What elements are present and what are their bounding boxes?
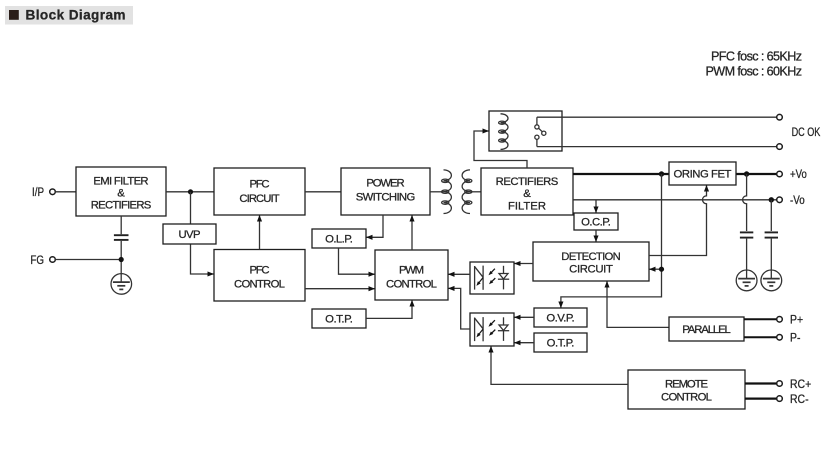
block ORING FET	[669, 162, 736, 185]
capacitor Y-cap plates	[114, 235, 129, 240]
junction dot on +Vo rail	[659, 171, 664, 176]
wire OCP down to detection circuit	[595, 230, 597, 242]
wire OTP to PWM bottom	[366, 300, 412, 318]
block PWM CONTROL	[375, 250, 448, 300]
wire power switching to transformer primary	[430, 191, 444, 193]
wire transformer secondary to rectifiers	[470, 191, 481, 193]
wire node A down to UVP	[190, 192, 192, 224]
svg-text:CONTROL: CONTROL	[661, 392, 712, 404]
svg-text:O.L.P.: O.L.P.	[325, 234, 353, 246]
svg-text:CIRCUIT: CIRCUIT	[239, 193, 279, 205]
relay K1 box	[489, 111, 562, 151]
svg-text:RC-: RC-	[790, 393, 809, 406]
svg-text:EMI FILTER: EMI FILTER	[93, 175, 148, 187]
svg-text:-Vo: -Vo	[790, 194, 805, 207]
svg-text:&: &	[523, 188, 531, 200]
section header bar	[5, 6, 133, 25]
svg-text:REMOTE: REMOTE	[665, 379, 708, 391]
svg-text:PFC: PFC	[249, 264, 269, 276]
wire PFC control up to PFC circuit	[259, 215, 261, 249]
wire PFC control to PWM control	[305, 288, 375, 290]
wire EMI to PFC circuit	[166, 191, 214, 193]
terminal -Vo	[777, 197, 783, 203]
svg-text:I/P: I/P	[32, 186, 44, 199]
junction dot node B	[119, 257, 124, 262]
svg-text:P+: P+	[790, 314, 803, 327]
relay K1 coil	[499, 114, 508, 150]
wire photocoupler U1 to PWM control	[448, 273, 470, 275]
svg-text:PWM fosc : 60KHz: PWM fosc : 60KHz	[706, 64, 803, 78]
junction dot +Vo cap branch	[744, 171, 749, 176]
wire I/P to EMI filter	[55, 191, 76, 193]
wire +Vo rail down to OVP via detection	[561, 174, 662, 308]
block PFC CIRCUIT	[214, 168, 305, 215]
capacitor output C2	[765, 232, 778, 237]
wire detection to ORING FET bottom	[649, 185, 707, 255]
wire rectifiers to +Vo rail	[573, 173, 777, 175]
block O.T.P. secondary	[534, 333, 587, 352]
ground output earth 2	[761, 270, 782, 291]
svg-text:O.T.P.: O.T.P.	[325, 314, 353, 326]
wire OTP2 to photocoupler U2	[514, 342, 534, 344]
block PARALLEL	[669, 317, 744, 341]
terminal P+	[777, 317, 783, 323]
terminal DC OK upper	[777, 114, 783, 120]
block RECTIFIERS & FILTER	[481, 168, 573, 215]
wire OVP to photocoupler U2	[514, 316, 534, 318]
wire PARALLEL to P-	[744, 336, 777, 338]
block REMOTE CONTROL	[628, 370, 745, 409]
wire +Vo cap branch down	[743, 174, 747, 231]
photocoupler U1	[470, 262, 514, 294]
svg-text:RC+: RC+	[790, 378, 812, 391]
wire REMOTE to RC-	[745, 398, 777, 400]
svg-text:PWM: PWM	[399, 265, 424, 277]
wire PFC circuit to POWER SWITCHING	[305, 191, 341, 193]
wire REMOTE to photocoupler U2 bottom	[491, 346, 628, 384]
svg-text:O.V.P.: O.V.P.	[546, 313, 574, 325]
svg-text:CIRCUIT: CIRCUIT	[569, 263, 613, 275]
svg-text:PARALLEL: PARALLEL	[682, 324, 731, 336]
wire OLP to PWM control	[339, 248, 375, 274]
block DETECTION CIRCUIT	[533, 242, 649, 281]
wire relay to DC OK +	[537, 116, 777, 118]
wire -Vo cap branch down	[770, 200, 772, 231]
wire rectifiers top to relay coil	[474, 131, 527, 168]
svg-text:CONTROL: CONTROL	[234, 279, 285, 291]
block PFC CONTROL	[214, 250, 305, 302]
wire C2 to ground	[770, 239, 772, 270]
wire FG to node B	[55, 259, 121, 261]
wire power switching down to OLP	[366, 215, 383, 237]
terminal DC OK lower	[777, 144, 783, 150]
wire PARALLEL to P+	[744, 318, 777, 320]
block EMI FILTER & RECTIFIERS	[76, 167, 166, 216]
capacitor output C1	[740, 232, 753, 237]
wire Y-cap to FG node and ground	[120, 241, 122, 274]
wire relay to DC OK -	[537, 146, 777, 148]
svg-text:POWER: POWER	[366, 178, 404, 190]
block O.V.P.	[534, 308, 587, 327]
block O.C.P.	[574, 213, 618, 230]
svg-text:P-: P-	[790, 332, 801, 345]
block POWER SWITCHING	[341, 168, 430, 215]
terminal +Vo	[777, 171, 783, 177]
terminal RC-	[777, 396, 783, 402]
wire -Vo rail down to OCP	[595, 200, 597, 213]
svg-text:O.C.P.: O.C.P.	[581, 217, 611, 229]
junction dot -Vo cap branch	[769, 197, 774, 202]
wire detection left to photocoupler U1	[514, 263, 533, 265]
wire photocoupler U2 to PWM control	[448, 288, 470, 329]
svg-text:RECTIFIERS: RECTIFIERS	[91, 200, 152, 212]
photocoupler U2	[470, 313, 514, 346]
svg-text:&: &	[117, 188, 125, 200]
block UVP	[163, 224, 216, 244]
wire PWM control up to power switching	[411, 215, 413, 250]
block O.L.P.	[312, 229, 366, 248]
svg-text:PFC: PFC	[249, 179, 269, 191]
svg-text:DC OK: DC OK	[792, 126, 821, 140]
wire detection bottom to PARALLEL	[607, 281, 669, 327]
svg-text:DETECTION: DETECTION	[561, 251, 621, 263]
wire rectifiers to -Vo rail	[573, 199, 777, 201]
svg-text:FILTER: FILTER	[508, 200, 546, 212]
svg-text:ORING FET: ORING FET	[674, 169, 732, 181]
ground output earth 1	[736, 270, 757, 291]
svg-text:SWITCHING: SWITCHING	[356, 191, 416, 203]
svg-text:PFC fosc : 65KHz: PFC fosc : 65KHz	[711, 49, 802, 63]
ground FG earth symbol	[111, 274, 132, 295]
svg-text:+Vo: +Vo	[790, 168, 807, 181]
terminal P-	[777, 335, 783, 341]
svg-text:O.T.P.: O.T.P.	[547, 338, 575, 350]
terminal FG	[30, 254, 55, 267]
terminal I/P	[32, 186, 55, 199]
transformer T1 primary winding	[442, 170, 452, 214]
relay K1 contacts	[535, 117, 546, 146]
svg-text:Block Diagram: Block Diagram	[26, 7, 126, 22]
terminal RC+	[777, 381, 783, 387]
wire REMOTE to RC+	[745, 382, 777, 384]
wire C1 to ground	[746, 239, 748, 270]
wire EMI bottom to Y-cap	[120, 216, 122, 234]
svg-text:CONTROL: CONTROL	[386, 279, 437, 291]
transformer T1 secondary winding	[462, 170, 472, 214]
junction dot node A	[188, 189, 193, 194]
block O.T.P. lower left	[312, 309, 366, 328]
wire branch into detection right	[649, 268, 661, 270]
svg-text:RECTIFIERS: RECTIFIERS	[496, 176, 559, 188]
svg-text:FG: FG	[30, 254, 44, 267]
junction dot detection branch	[659, 267, 664, 272]
wire UVP to PFC control	[191, 244, 214, 274]
svg-text:UVP: UVP	[179, 229, 201, 241]
